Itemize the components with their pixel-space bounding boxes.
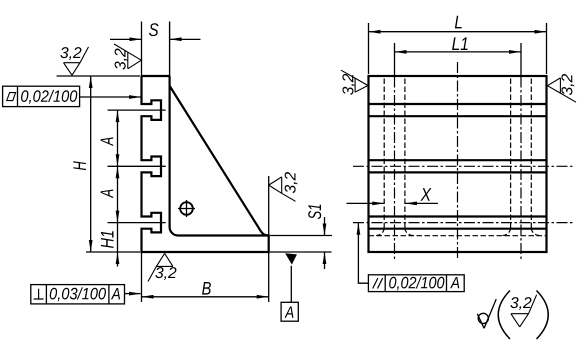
dimension H: dimension line <box>90 76 92 252</box>
dimension X: arrowheads <box>372 202 417 206</box>
right view: vertical centerline right hole <box>520 77 522 260</box>
dimension S1: extension lines <box>270 236 332 253</box>
perpendicularity tolerance frame: box <box>31 285 125 304</box>
left view: gusset hypotenuse <box>170 86 269 236</box>
general surface note: basic symbol with circle <box>477 299 496 328</box>
dimension S: label <box>149 23 158 36</box>
dimension S1: dimension line tails <box>324 217 326 269</box>
parallelism frame: text <box>389 276 444 290</box>
dimension S1: label <box>308 205 321 220</box>
right view: hidden rib walls left rib <box>384 79 405 228</box>
dimension L1: arrowheads <box>395 50 522 54</box>
dimension L: label <box>455 16 462 29</box>
right view: vertical centerline left hole <box>394 77 396 260</box>
surface finish 3,2 at base right face ext <box>268 176 270 236</box>
dimension A: label 1 <box>101 137 114 146</box>
dimension B: arrowheads <box>142 295 269 299</box>
dimension A: arrowheads <box>116 110 120 223</box>
right view: T-slot 2 edges <box>369 160 547 172</box>
perpendicularity symbol <box>34 289 44 299</box>
hole in gusset: circle <box>180 202 193 215</box>
right view: T-slot 3 edges <box>369 217 547 229</box>
dimension L1: label <box>452 37 467 50</box>
dimension H1: arrowhead <box>116 252 120 264</box>
surface finish 3,2 rotated (on left face ext) <box>114 44 141 69</box>
right view: vertical centerline middle <box>457 62 459 259</box>
right view: slot centerline 2 <box>353 165 575 167</box>
surface finish 3,2 bottom (on base bottom) <box>148 253 173 281</box>
general surface note: close paren <box>537 291 549 340</box>
dimension H1: label <box>101 231 114 248</box>
right view: slot centerline 3 <box>353 222 575 224</box>
right view: outline <box>369 76 547 252</box>
dimension B: dimension line <box>142 296 269 298</box>
dimension H: label <box>73 161 86 170</box>
parallelism frame: leader <box>358 223 368 283</box>
perpendicularity frame: leader <box>125 293 141 295</box>
datum A: box <box>281 302 298 321</box>
dimension S: arrowheads <box>130 37 182 41</box>
flatness tolerance frame: box <box>3 86 80 106</box>
left view: slot centerline 2 <box>108 165 166 167</box>
parallelism symbol <box>373 278 383 289</box>
hole in gusset: crosshair <box>178 200 195 217</box>
right view: T-slot 1 edges <box>369 104 547 116</box>
perpendicularity frame: text <box>50 287 106 301</box>
dimension A: label 2 <box>101 190 114 199</box>
dimension L1: dimension line <box>395 51 522 53</box>
flatness frame: leader <box>80 96 141 98</box>
left view: slot centerline 1 <box>108 109 166 111</box>
general surface note: open paren <box>498 291 510 340</box>
dimension H: extension lines <box>57 76 140 252</box>
dimension L: dimension line <box>369 31 547 33</box>
general surface note: inner 3,2 symbol <box>510 297 531 310</box>
right view: right rib fillet hooks <box>503 228 540 236</box>
flatness frame: text <box>21 90 77 104</box>
datum A: stem <box>290 266 292 303</box>
left view: slot centerline 3 <box>108 222 166 224</box>
datum A: letter <box>285 306 294 317</box>
surface finish 3,2 at right view left edge <box>341 70 368 92</box>
datum A: filled triangle <box>285 253 297 264</box>
flatness symbol <box>7 93 16 101</box>
dimension A chain + H1: dimension line <box>117 110 119 266</box>
right view: hidden base top line <box>369 235 547 237</box>
dimension L: arrowheads <box>369 30 547 34</box>
dimension S1: arrowheads <box>323 224 327 265</box>
right view: left rib fillet hooks <box>376 228 413 236</box>
dimension L1: extension lines <box>395 43 522 77</box>
dimension S: extension lines <box>141 22 143 77</box>
dimension X: dimension line tails <box>347 202 438 204</box>
left view: outline with T-slots <box>142 76 269 252</box>
dimension B: extension lines <box>142 253 269 302</box>
right view: hidden rib walls right rib <box>511 79 532 228</box>
surface finish 3,2 top-left (on top surface ext) <box>64 47 89 75</box>
dimension L: extension lines <box>369 23 547 74</box>
dimension S: dimension line <box>110 38 201 40</box>
parallelism tolerance frame: box <box>368 275 464 292</box>
dimension H: arrowheads <box>89 76 93 252</box>
dimension X: label <box>420 188 431 201</box>
surface finish 3,2 at right view right edge <box>547 78 576 102</box>
dimension B: label <box>202 282 211 295</box>
